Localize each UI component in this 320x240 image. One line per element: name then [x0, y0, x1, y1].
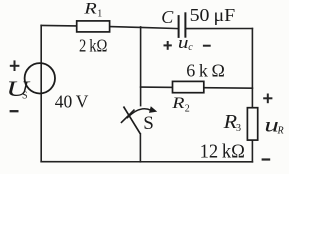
svg-text:2: 2	[185, 104, 190, 115]
svg-text:40 V: 40 V	[55, 91, 89, 111]
svg-text:R: R	[277, 126, 284, 137]
svg-text:S: S	[22, 90, 28, 101]
svg-text:1: 1	[97, 9, 102, 20]
svg-text:6 k Ω: 6 k Ω	[186, 61, 225, 81]
svg-text:C: C	[161, 7, 174, 27]
svg-text:R: R	[171, 94, 184, 112]
svg-text:u: u	[178, 34, 189, 53]
svg-text:R: R	[223, 110, 238, 133]
svg-text:12 kΩ: 12 kΩ	[200, 140, 245, 162]
svg-text:S: S	[143, 113, 154, 134]
svg-text:50 μF: 50 μF	[190, 5, 236, 25]
svg-text:3: 3	[236, 123, 241, 134]
svg-text:R: R	[83, 0, 97, 17]
svg-text:2 kΩ: 2 kΩ	[79, 35, 107, 55]
svg-text:c: c	[188, 42, 193, 53]
